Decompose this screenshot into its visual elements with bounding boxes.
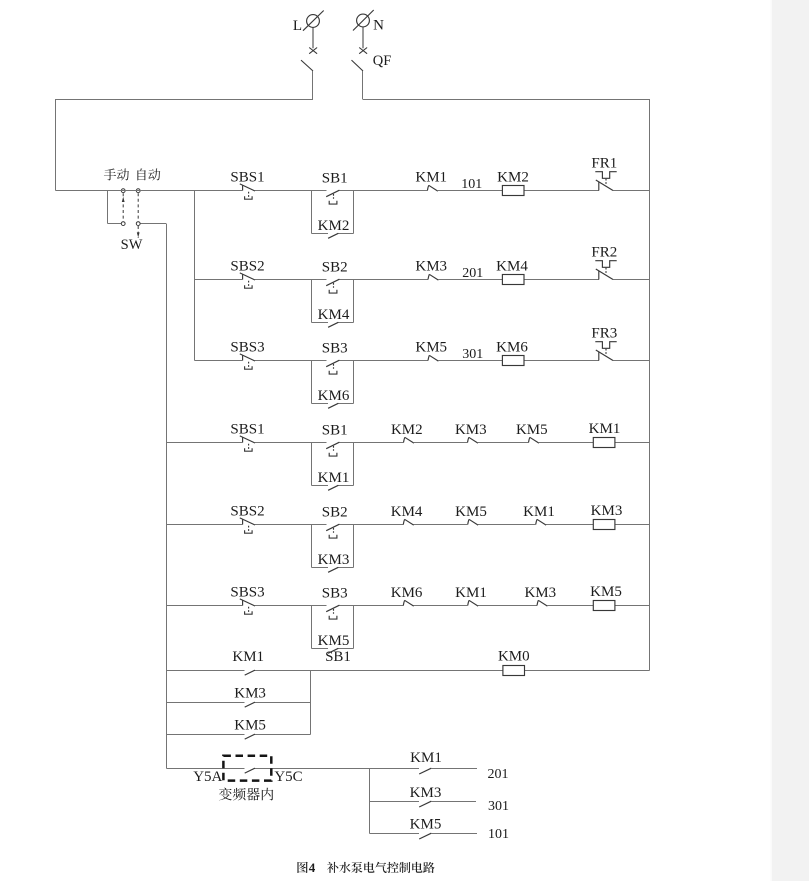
svg-text:SW: SW	[121, 237, 143, 253]
parallel contact KM2	[312, 233, 354, 235]
contact KM6	[403, 600, 413, 606]
coil KM0	[503, 666, 525, 676]
svg-text:Y5C: Y5C	[274, 769, 302, 785]
parallel branch verticals	[311, 361, 313, 404]
svg-text:KM2: KM2	[318, 218, 350, 234]
selector switch SW dashed poles	[122, 193, 124, 221]
thermal contact FR3	[595, 342, 616, 361]
svg-text:QF: QF	[373, 53, 392, 69]
caption 图4	[297, 862, 307, 873]
SW arrow down	[137, 232, 140, 237]
coil KM6	[502, 356, 524, 366]
contact KM5	[468, 519, 478, 525]
row 9 wire	[167, 734, 311, 736]
SW contact circles	[121, 189, 125, 193]
svg-text:KM5: KM5	[516, 422, 548, 438]
svg-text:N: N	[373, 18, 384, 34]
svg-text:201: 201	[462, 266, 483, 281]
svg-text:KM1: KM1	[589, 421, 621, 437]
label 变频器内	[219, 788, 232, 801]
contact KM1	[245, 670, 255, 675]
parallel branch verticals	[311, 525, 313, 568]
row 2 wire	[195, 279, 650, 281]
breaker blade QF left pole	[301, 60, 313, 71]
row 7 wire	[167, 670, 650, 672]
svg-text:KM6: KM6	[391, 585, 423, 601]
svg-text:KM3: KM3	[410, 785, 442, 801]
svg-text:Y5A: Y5A	[193, 769, 222, 785]
parallel contact KM5	[312, 648, 354, 650]
svg-text:SBS3: SBS3	[230, 340, 264, 356]
pushbutton SBS2	[240, 273, 255, 288]
coil KM5	[593, 601, 615, 611]
contact KM5	[529, 437, 539, 443]
svg-text:KM6: KM6	[318, 388, 350, 404]
svg-text:SBS2: SBS2	[230, 259, 264, 275]
contact KM2	[404, 437, 414, 443]
svg-text:KM1: KM1	[523, 504, 555, 520]
svg-text:SBS1: SBS1	[230, 170, 264, 186]
fuse cross L	[309, 48, 317, 54]
SW link right to feeder	[140, 223, 166, 225]
row 8 wire	[167, 702, 311, 704]
parallel contact KM4	[312, 322, 354, 324]
svg-text:KM4: KM4	[391, 504, 423, 520]
pushbutton SB3	[326, 605, 339, 619]
left bus vertical	[55, 99, 57, 191]
svg-text:SB1: SB1	[325, 649, 351, 665]
row 4 wire	[167, 442, 650, 444]
parallel contact KM6	[312, 403, 354, 405]
svg-text:KM6: KM6	[496, 340, 528, 356]
right link rows 7-9	[310, 671, 312, 735]
thermal contact FR1	[595, 172, 616, 191]
parallel branch verticals	[311, 280, 313, 323]
svg-text:KM3: KM3	[234, 686, 266, 702]
svg-text:301: 301	[462, 347, 483, 362]
SW link left	[107, 191, 109, 224]
svg-text:101: 101	[488, 827, 509, 842]
feeder for rows 2-3	[194, 191, 196, 361]
right bus vertical	[649, 99, 651, 671]
thermal contact FR2	[595, 261, 616, 280]
contact KM3	[468, 437, 478, 443]
svg-text:KM2: KM2	[497, 170, 529, 186]
pushbutton SBS1	[240, 184, 255, 199]
contact KM1	[468, 600, 478, 606]
pushbutton SBS3	[240, 354, 255, 369]
svg-text:KM2: KM2	[391, 422, 423, 438]
svg-text:KM3: KM3	[318, 552, 350, 568]
pushbutton SB3	[326, 360, 339, 374]
svg-text:SB1: SB1	[322, 170, 348, 186]
SW arrow up	[122, 197, 125, 202]
contact Y5	[245, 768, 255, 773]
contact KM3	[245, 702, 255, 707]
wire N drop	[362, 27, 364, 48]
svg-text:KM5: KM5	[415, 340, 447, 356]
top bus right segment	[363, 99, 650, 101]
svg-text:KM1: KM1	[318, 470, 350, 486]
svg-text:KM5: KM5	[455, 504, 487, 520]
caption 补水泵电气控制电路	[327, 862, 338, 873]
coil KM3	[593, 520, 615, 530]
svg-text:101: 101	[461, 177, 482, 192]
pushbutton SBS2	[240, 518, 255, 533]
pushbutton SB1	[326, 190, 339, 204]
row 6 wire	[167, 605, 650, 607]
pushbutton SBS3	[240, 599, 255, 614]
coil KM2	[502, 186, 524, 196]
row A wire	[167, 768, 478, 770]
pushbutton SB2	[326, 279, 339, 293]
row 5 wire	[167, 524, 650, 526]
svg-text:KM5: KM5	[234, 718, 266, 734]
parallel branch verticals	[311, 443, 313, 486]
svg-text:4: 4	[309, 860, 316, 875]
svg-text:SB2: SB2	[322, 259, 348, 275]
fuse cross N	[359, 48, 367, 54]
contact KM5 bottom	[419, 833, 431, 839]
svg-text:KM5: KM5	[318, 633, 350, 649]
svg-text:KM1: KM1	[410, 750, 442, 766]
top bus left segment	[56, 99, 314, 101]
svg-text:KM4: KM4	[496, 259, 528, 275]
parallel contact KM1	[312, 485, 354, 487]
wire	[312, 71, 314, 100]
main left feeder	[166, 224, 168, 769]
svg-text:KM1: KM1	[455, 585, 487, 601]
svg-text:SB3: SB3	[322, 340, 348, 356]
svg-text:SBS2: SBS2	[230, 504, 264, 520]
breaker blade QF right pole	[352, 60, 364, 71]
svg-text:FR1: FR1	[591, 156, 617, 172]
row B wire	[370, 801, 477, 803]
svg-text:KM3: KM3	[455, 422, 487, 438]
terminal L	[303, 11, 324, 31]
svg-text:SBS1: SBS1	[230, 422, 264, 438]
label 手动	[104, 168, 116, 180]
coil KM4	[502, 275, 524, 285]
row C wire	[370, 833, 478, 835]
svg-text:KM5: KM5	[590, 584, 622, 600]
svg-text:FR2: FR2	[591, 245, 617, 261]
svg-text:L: L	[293, 18, 302, 34]
wire	[362, 71, 364, 100]
contact KM3 bottom	[419, 801, 431, 807]
parallel branch verticals	[311, 606, 313, 649]
svg-text:KM3: KM3	[591, 503, 623, 519]
svg-text:KM5: KM5	[410, 816, 442, 832]
svg-text:SB3: SB3	[322, 585, 348, 601]
label 自动	[137, 168, 145, 180]
svg-text:KM1: KM1	[232, 649, 264, 665]
svg-text:KM1: KM1	[415, 170, 447, 186]
svg-text:SB2: SB2	[322, 504, 348, 520]
contact KM3	[428, 274, 438, 280]
svg-text:301: 301	[488, 799, 509, 814]
wire L drop	[312, 27, 314, 48]
svg-text:KM0: KM0	[498, 648, 530, 664]
contact KM4	[403, 519, 413, 525]
coil KM1	[593, 438, 615, 448]
parallel contact KM3	[312, 567, 354, 569]
row 3 wire	[195, 360, 650, 362]
contact KM3	[537, 600, 547, 606]
pushbutton SB1	[326, 442, 339, 456]
dashed inverter box	[223, 756, 271, 781]
contact KM1 bottom	[419, 768, 431, 774]
svg-text:SB1: SB1	[322, 422, 348, 438]
contact KM1	[536, 519, 546, 525]
svg-text:KM4: KM4	[318, 307, 350, 323]
svg-text:KM3: KM3	[415, 259, 447, 275]
svg-text:201: 201	[488, 767, 509, 782]
pushbutton SB2	[326, 524, 339, 538]
svg-text:FR3: FR3	[591, 326, 617, 342]
contact KM1	[427, 185, 437, 191]
bottom feeder	[369, 769, 371, 834]
pushbutton SBS1	[240, 436, 255, 451]
terminal N	[353, 10, 374, 31]
parallel branch verticals	[311, 191, 313, 234]
row 1 wire	[56, 190, 650, 192]
svg-text:KM3: KM3	[524, 585, 556, 601]
contact KM5	[428, 355, 438, 361]
svg-text:SBS3: SBS3	[230, 585, 264, 601]
contact KM5	[245, 734, 255, 739]
